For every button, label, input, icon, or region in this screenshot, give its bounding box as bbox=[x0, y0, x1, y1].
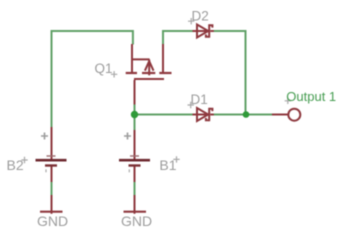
svg-text:GND: GND bbox=[37, 213, 68, 229]
svg-text:GND: GND bbox=[121, 213, 152, 229]
svg-text:B1: B1 bbox=[159, 157, 176, 173]
svg-text:Output 1: Output 1 bbox=[286, 89, 336, 104]
svg-text:Q1: Q1 bbox=[95, 61, 113, 76]
svg-text:D1: D1 bbox=[191, 92, 208, 107]
svg-text:B2: B2 bbox=[7, 157, 24, 173]
svg-text:D2: D2 bbox=[192, 8, 209, 23]
